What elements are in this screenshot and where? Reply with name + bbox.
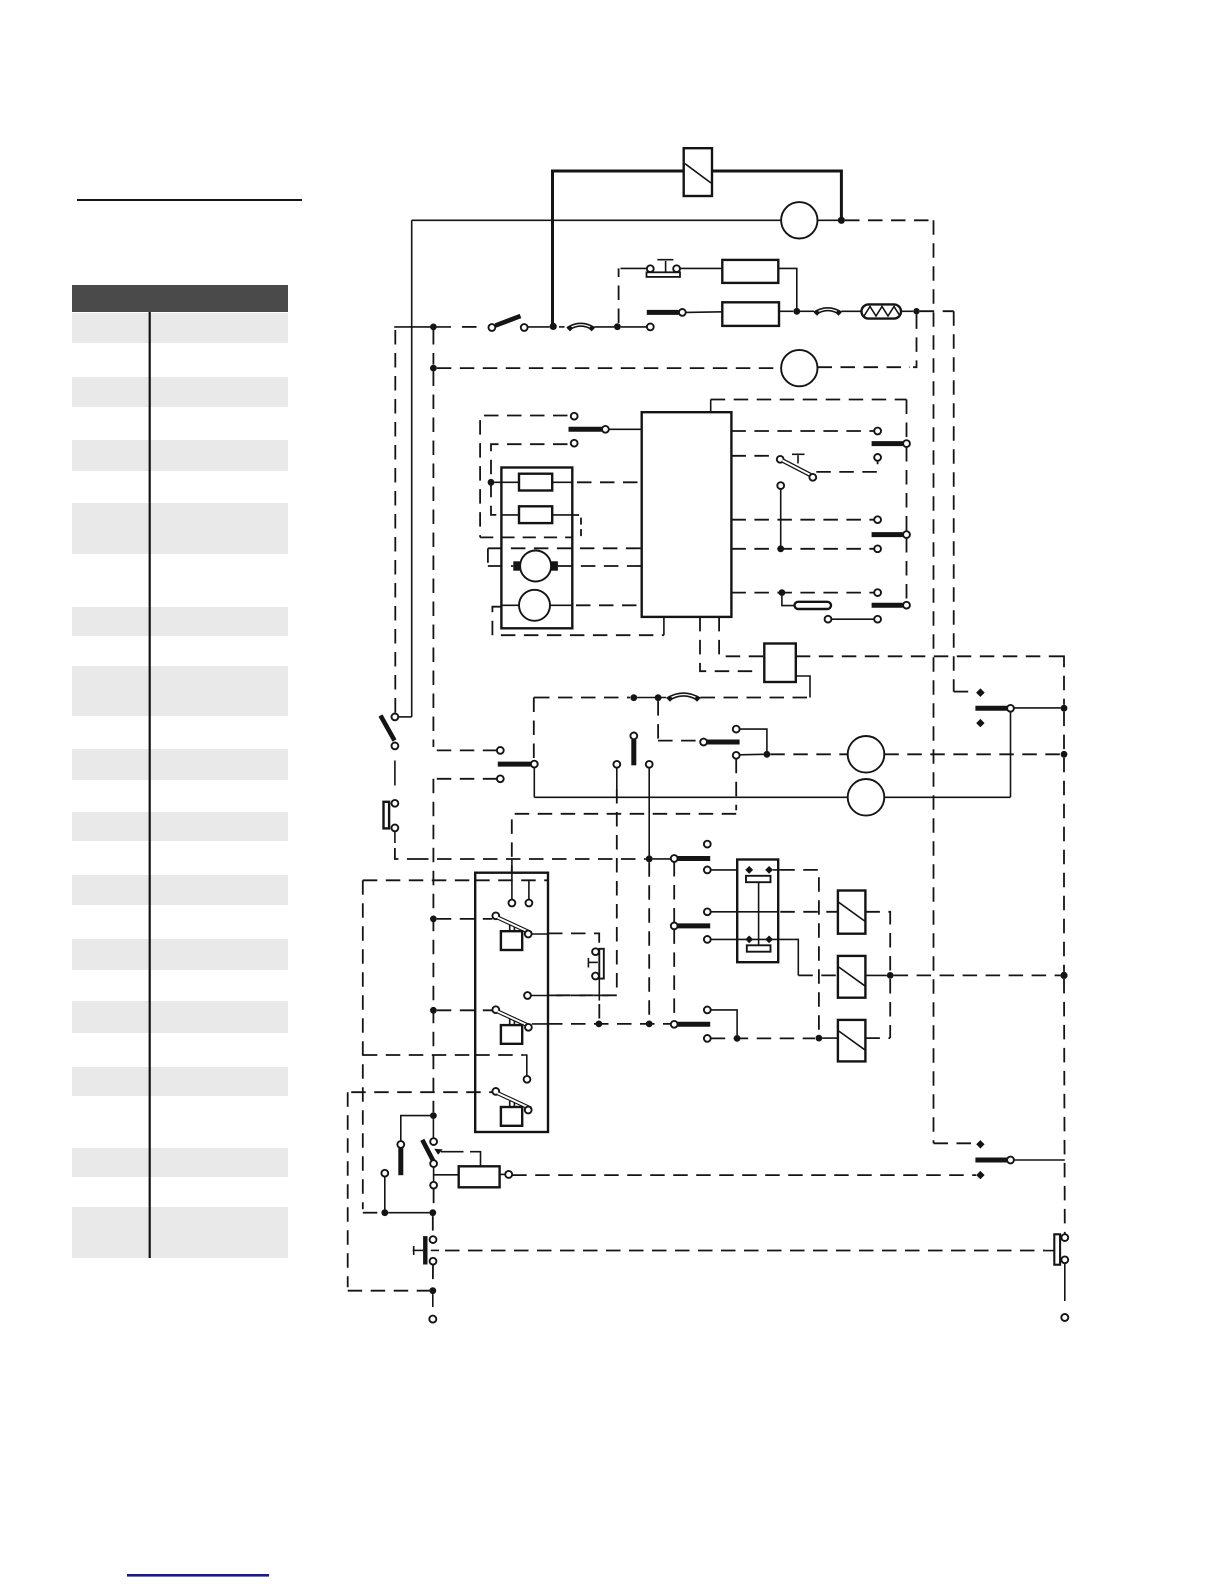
wire valve2 feed [798, 974, 838, 976]
wire contact rail B-C [673, 929, 675, 1020]
terminal switch top [392, 714, 399, 721]
wire K5 right leg [648, 768, 650, 856]
module box A1 [475, 873, 548, 1132]
node branch split [614, 323, 621, 330]
wire control row y=697.5 [535, 697, 630, 699]
terminal pin3 [874, 516, 881, 523]
wire U2 pin1 dashed [731, 430, 874, 432]
node bottom row left [381, 1209, 388, 1216]
enclosure outer dashed bottom [348, 1290, 430, 1292]
wire K7 to rail [1014, 707, 1061, 709]
wire thermal top out [773, 869, 781, 871]
terminal sw3 throw [524, 1076, 531, 1083]
resistor R2 [722, 260, 778, 283]
wire dashed to right rail [845, 219, 934, 221]
contact K9 [975, 1157, 1013, 1164]
node valve3 feed [816, 1035, 823, 1042]
changeover K6 [700, 726, 739, 759]
wire bus dash [559, 326, 565, 328]
wire connector to K3 corner [701, 697, 811, 699]
wire left lower drop [384, 1177, 386, 1210]
capacitor switch S9 [1045, 1234, 1068, 1265]
enclosure notch [572, 515, 582, 537]
table header bar [72, 285, 288, 312]
contact KC [671, 1021, 710, 1028]
contact KA [671, 841, 711, 862]
contact K1a [569, 413, 609, 447]
wire K5 leg corner dashed [531, 994, 617, 996]
wire to bottom terminal [432, 1294, 434, 1307]
connector X3 [667, 693, 701, 702]
wire sw1 mech dashed [548, 933, 599, 945]
terminal pair below U2 [825, 616, 881, 623]
contact K2b [872, 531, 910, 538]
diamond K9 upper [976, 1140, 984, 1148]
node lampA rail [1061, 751, 1068, 758]
wire S8 out [431, 1249, 439, 1251]
lamp H3 [848, 736, 885, 773]
bus solid y=797.3 [534, 796, 1010, 798]
valve Y2 [838, 956, 866, 998]
capacitor switch S8 [413, 1236, 437, 1265]
enclosure outer dashed left [347, 1092, 349, 1287]
wire M1 right dashed [558, 565, 642, 567]
wire M2 right [550, 604, 572, 606]
wire mech row dashed long [512, 1174, 976, 1176]
wire dashed control row [488, 547, 642, 549]
wire B throw through box [711, 911, 779, 913]
wire rail seg [906, 447, 908, 531]
wire module top pin b [528, 880, 530, 899]
wire U2 pin5 dashed [731, 592, 874, 594]
wire U2 pin2 dashed [731, 455, 776, 457]
fuse F1 [862, 304, 902, 318]
terminal C lower throw [704, 1035, 711, 1042]
node rail valve row [1060, 972, 1067, 979]
terminal bottom right [1061, 1314, 1068, 1321]
wire valve2 dashed to rail [894, 974, 1061, 976]
wire K6 lower throw drop [735, 759, 737, 811]
wire K7 drop to bus [1010, 712, 1012, 798]
node C corner [734, 1035, 741, 1042]
footer blue rule [127, 1574, 269, 1577]
node at thick bus drop [838, 217, 845, 224]
wire corner drop to contact [533, 698, 535, 761]
wire dashed to corner [780, 870, 819, 1035]
wire contact to U2 [609, 428, 642, 430]
wire lamp H1 feed [412, 219, 782, 221]
wire M2 dashed to U2 [576, 604, 642, 606]
pushbutton S6 [588, 948, 604, 979]
wire right rail 2 lower [1063, 979, 1066, 1234]
wire X2 to fuse [842, 310, 862, 312]
wire left chain corner [398, 716, 412, 718]
wire long dashed row y=859 [414, 858, 646, 860]
switch S2 lower branch [647, 309, 686, 330]
wire control rail x=433 lower seg [432, 779, 434, 1112]
lamp H4 [848, 779, 885, 816]
wire U2 bottom pin c [719, 617, 764, 656]
lamp H1 [781, 202, 817, 238]
wire corner left end [534, 697, 535, 699]
wire right rail 1 (dashed vertical) [933, 220, 935, 1143]
wire H2 right dashed [818, 366, 911, 368]
wire bottom row dashes [363, 1212, 382, 1214]
node H2 row [430, 365, 437, 372]
node pin5 [779, 589, 786, 596]
switch SW2 [492, 1006, 531, 1043]
node lampA row [764, 751, 771, 758]
terminal pin5 [874, 589, 881, 596]
node pin4 [777, 545, 784, 552]
valve Y1 [838, 891, 866, 934]
wire U2 bottom pin a [663, 617, 665, 635]
contact K4a [497, 747, 538, 782]
enclosure dashed bottom inside [475, 1054, 523, 1056]
wire X1 to node [595, 326, 615, 328]
node long row rail [646, 856, 653, 863]
node sw2 feed [430, 1007, 437, 1014]
fuse F2 [384, 800, 399, 831]
node branch join [793, 308, 800, 315]
switch S3 on main bus [489, 316, 528, 331]
wire valve2 out [865, 974, 886, 976]
wire right rail 2 top corner [1061, 656, 1065, 705]
wire S2 to R1 [686, 311, 723, 314]
terminal left chain [397, 1141, 404, 1148]
contact K2a [872, 440, 910, 447]
wire contact rail A-B [673, 862, 675, 922]
node sw1 feed [430, 916, 437, 923]
wire sw2 pivot feed [437, 1009, 493, 1011]
wire corner to terminal [523, 1055, 527, 1076]
terminal module mid2 [524, 992, 531, 999]
wire coil feed [434, 1174, 459, 1176]
node S6 row [596, 1021, 603, 1028]
terminal C upper throw [704, 1007, 711, 1014]
wire S3 to thick drop [528, 326, 550, 328]
wire below S9 [1064, 1263, 1066, 1301]
connector X1 [567, 323, 595, 331]
terminal S7 bottom [430, 1182, 437, 1189]
node bottom row rail [429, 1209, 436, 1216]
wire left drop (solid vertical) [411, 220, 413, 717]
enclosure dashed module bottom [363, 1054, 523, 1056]
diamond control upper [976, 688, 984, 696]
wire M1 left dashed [488, 565, 513, 567]
wire sw2 out [532, 1023, 548, 1025]
terminal left lower [381, 1170, 388, 1177]
relay K1 [684, 148, 712, 196]
thermal relay F3 [737, 860, 778, 963]
terminal pin1 [874, 428, 881, 435]
enclosure dashed right top [711, 399, 907, 401]
enclosure dashed upper-left [480, 416, 567, 538]
wire right rail 2 long [1063, 758, 1065, 972]
enclosure dashed top inside [475, 879, 548, 881]
table column divider [149, 312, 151, 1258]
wire R4 left [501, 514, 519, 516]
wire contact rail right (x=906.5) [906, 400, 908, 441]
wire chain dash [394, 761, 396, 786]
terminal switch bottom [392, 743, 399, 750]
wire pin5 corner [782, 596, 794, 606]
wire rail seg 2 [906, 538, 908, 602]
wire lampA right dashed [884, 753, 1060, 755]
wire K3 row right [796, 655, 1061, 657]
wire B lower through box [711, 938, 794, 940]
switch S4 [777, 454, 816, 480]
wire mech arrow [434, 1149, 480, 1167]
enclosure bottom edge [480, 536, 571, 538]
node bus left dot [430, 324, 437, 331]
wire dashed node to rail 2 [920, 310, 954, 312]
wire valve3 row dashed [711, 1037, 815, 1039]
wire K5 left leg dashed [616, 789, 618, 995]
node K6 stub top [655, 694, 662, 701]
wire row to connector [637, 697, 666, 699]
terminal module mid [524, 992, 531, 999]
valve Y3 [838, 1020, 866, 1062]
wire node to S2 terminal [621, 326, 647, 328]
connector X2 [814, 308, 842, 316]
wire B lower corner [793, 939, 798, 975]
terminal module a [509, 900, 516, 907]
wire K6 stub [658, 701, 661, 741]
wire K9 to rail [1014, 1159, 1065, 1161]
node valve2 bus [887, 972, 894, 979]
wire R3 right to U2 [552, 481, 572, 483]
switch SW3 [492, 1088, 531, 1126]
wire thick top bus left segment [553, 171, 684, 327]
wire U2 bottom pin b [700, 617, 760, 671]
node bottom corner [429, 1287, 436, 1294]
terminal module b [526, 900, 533, 907]
wire chain below fuse [394, 831, 396, 843]
wire sw3 pivot feed [351, 1091, 492, 1093]
terminal mid module feed [531, 995, 548, 997]
wire thick top bus right segment [712, 171, 841, 221]
wire contact feeds dashed [437, 749, 497, 751]
resistor R3 [519, 474, 552, 491]
motor unit frame [501, 468, 572, 629]
wire R1 to node [779, 310, 793, 312]
wire bottom row solid [388, 1212, 429, 1214]
blade contact K5 [613, 733, 652, 768]
wire right rail 2 seg [1063, 712, 1065, 751]
wire R4 right [552, 514, 571, 516]
wire S4 throw dashed [816, 461, 877, 472]
node fuse out [913, 308, 919, 314]
wire C upper corner [711, 1010, 737, 1035]
wire contact out to bus [533, 768, 535, 798]
wire control rail x=433 mid [432, 372, 434, 748]
enclosure dashed module left [362, 880, 364, 1209]
wire rail 2 (dashed vertical from fuse) [953, 311, 955, 691]
contact K2c [872, 602, 910, 609]
wire corner left [401, 1116, 434, 1141]
heater element E1 [795, 602, 832, 609]
wire S7 lower [433, 1167, 435, 1182]
wire mech dashed row y=813.8 [512, 814, 736, 900]
wire K6 stub to circle [658, 740, 700, 742]
wire valve1 feed dashed [780, 911, 838, 913]
contact KB [671, 923, 710, 930]
diamond mech row end [976, 1171, 984, 1179]
wire rail below S8 [432, 1265, 434, 1288]
wire fuse to node [901, 310, 913, 312]
node control row [630, 694, 637, 701]
changeover S7 [422, 1138, 437, 1167]
wire elbow to diamond [954, 691, 975, 693]
terminal drop top [777, 482, 784, 489]
wire upper branch corner [621, 267, 647, 269]
motor M1 [513, 551, 558, 582]
control unit U2 [642, 412, 732, 617]
wire right rail corner row y=1143 [934, 1142, 975, 1144]
wire sw1 out [532, 933, 548, 935]
relay coil K8 [459, 1166, 500, 1187]
wire lampA dashed [770, 753, 847, 755]
pushbutton S1 [647, 260, 681, 277]
wire drop [780, 489, 782, 549]
wire branch riser [618, 268, 620, 323]
wire S6 down dashed [598, 1004, 600, 1020]
wire valve3 feed solid [822, 1037, 838, 1039]
terminal A lower throw [704, 867, 711, 874]
wire A throw to thermal [711, 869, 746, 871]
wire valve3 out [865, 1037, 890, 1039]
wire R2 to corner down [778, 268, 797, 311]
wire U2 pin4 dashed [731, 548, 874, 550]
wire dashed drop below bus left [394, 330, 396, 714]
wire sw1 pivot feed [437, 918, 493, 920]
resistor R4 [519, 506, 552, 523]
wire M2 left [501, 604, 519, 606]
wire dash on bus [462, 326, 481, 328]
wire dashed H2 feed [437, 367, 781, 369]
wire chain corner to long row [395, 848, 414, 859]
node K7 rail [1061, 705, 1068, 712]
wire K3 right pin [796, 676, 810, 698]
wire rail below node [432, 1216, 434, 1236]
node long row [646, 856, 653, 863]
node R3 feed [488, 479, 495, 486]
wire drop from fuse node to H2 row [913, 314, 917, 367]
motor M2 [519, 590, 550, 621]
wire H1 to node [818, 219, 839, 221]
contact K7 top right [975, 689, 1013, 728]
wire U2 pin3 dashed [731, 519, 874, 521]
wire valve control row dashed [548, 1023, 671, 1025]
node valve row [646, 1021, 653, 1028]
wire module top pin [511, 859, 513, 900]
pole bar [398, 1148, 403, 1175]
wire U2 top pin [710, 400, 712, 413]
lamp H2 [781, 350, 817, 386]
enclosure dashed module top [363, 879, 548, 881]
node rail x433 module area [430, 1112, 437, 1119]
terminal coil out [505, 1171, 512, 1178]
wire K5 right leg dashed [648, 862, 650, 1020]
switch SW1 [492, 912, 531, 950]
terminal bottom left [429, 1316, 436, 1323]
wire R3 left [494, 481, 519, 483]
wire row to contact A [653, 858, 671, 860]
wire contact feed 2 [437, 778, 497, 780]
wire R3 dashed to U2 [577, 481, 642, 483]
wire mech row 2 dashed [445, 1250, 1045, 1252]
main bus left end [394, 326, 451, 328]
wire control rail (dashed x=433) upper [432, 330, 434, 365]
wire S6 down [598, 979, 600, 1001]
terminal S4 throw [874, 454, 881, 461]
switch S5 blade [381, 716, 395, 741]
terminal B upper throw [704, 908, 711, 915]
table zebra rows [72, 313, 288, 1258]
wire node to connector X2 [800, 310, 814, 312]
terminal pin4 [874, 545, 881, 552]
table top rule [77, 199, 302, 201]
wire lampA row solid seg [740, 753, 764, 756]
wire S1 to R2 [680, 267, 722, 269]
node thick drop on bus [550, 323, 557, 330]
wire rail to bottom node [433, 1189, 435, 1210]
wire inner dashed branch [491, 444, 568, 515]
wire K5 left leg [616, 768, 618, 789]
wire K6 upper throw corner [740, 729, 767, 751]
resistor R1 [722, 302, 779, 326]
wire module mid dashed [548, 994, 613, 996]
wire S7 top feed [432, 1119, 434, 1138]
terminal B lower throw [704, 936, 711, 943]
wire short link [487, 548, 489, 566]
enclosure dashed motor [492, 607, 664, 636]
relay K3 [764, 644, 796, 683]
wire valve1 out [865, 912, 890, 1038]
wire coil to terminal [500, 1173, 506, 1175]
